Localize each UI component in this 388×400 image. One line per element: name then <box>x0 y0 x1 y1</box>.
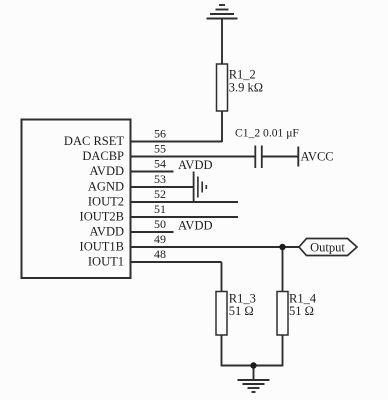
svg-text:53: 53 <box>154 172 166 186</box>
svg-text:54: 54 <box>154 157 166 171</box>
svg-text:DAC RSET: DAC RSET <box>64 134 124 148</box>
svg-text:C1_2 0.01 μF: C1_2 0.01 μF <box>235 127 299 140</box>
svg-text:51: 51 <box>154 202 166 216</box>
svg-text:51 Ω: 51 Ω <box>229 304 254 318</box>
svg-text:IOUT2B: IOUT2B <box>80 210 124 224</box>
svg-text:Output: Output <box>310 241 345 255</box>
svg-text:52: 52 <box>154 187 166 201</box>
svg-text:AVDD: AVDD <box>90 225 125 239</box>
svg-text:IOUT2: IOUT2 <box>88 195 124 209</box>
svg-text:50: 50 <box>154 217 166 231</box>
svg-text:IOUT1B: IOUT1B <box>80 240 124 254</box>
svg-text:51 Ω: 51 Ω <box>289 304 314 318</box>
svg-text:49: 49 <box>154 232 166 246</box>
svg-text:AVDD: AVDD <box>178 158 213 172</box>
svg-text:AVCC: AVCC <box>301 150 334 164</box>
svg-text:55: 55 <box>154 142 166 156</box>
svg-text:R1_2: R1_2 <box>229 68 256 82</box>
svg-text:AVDD: AVDD <box>90 164 125 178</box>
svg-text:3.9 kΩ: 3.9 kΩ <box>229 81 263 95</box>
svg-text:48: 48 <box>154 247 166 261</box>
svg-text:AGND: AGND <box>88 180 124 194</box>
svg-text:DACBP: DACBP <box>82 149 124 163</box>
svg-text:56: 56 <box>154 127 166 141</box>
svg-text:IOUT1: IOUT1 <box>88 255 124 269</box>
svg-text:AVDD: AVDD <box>178 219 213 233</box>
